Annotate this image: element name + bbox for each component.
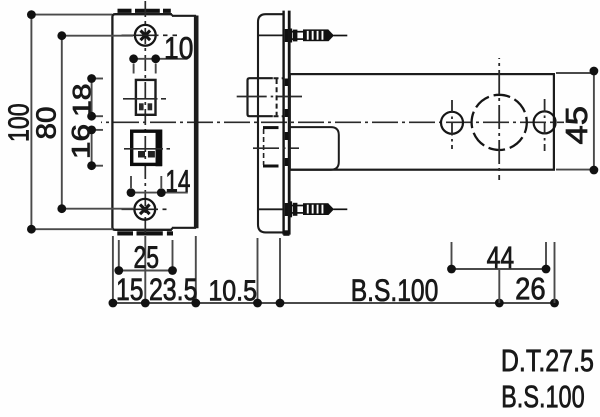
svg-text:16: 16 [68, 124, 96, 159]
front view top tabs [118, 9, 171, 13]
left small circle [441, 112, 463, 134]
front view faceplate outline [112, 14, 171, 230]
dimension 25 [119, 240, 173, 271]
dimension 14 [131, 176, 188, 193]
lock case side view [290, 74, 554, 170]
inner rounded housing [290, 127, 339, 170]
big circle vertical centerline [498, 58, 500, 180]
svg-text:18: 18 [69, 83, 97, 117]
top screw hole [135, 25, 156, 46]
top screw [290, 29, 348, 43]
front view lock case edge [172, 16, 197, 229]
bottom screw hole centerline [122, 208, 167, 210]
dimension 10 [134, 59, 188, 74]
bolt tail marks in slot [139, 103, 144, 110]
square hole (14x16) [132, 131, 161, 164]
svg-text:10.5: 10.5 [208, 275, 257, 307]
screw hole lines in box [259, 35, 283, 209]
svg-text:B.S.100: B.S.100 [501, 379, 585, 414]
latch slot (10x18) [136, 80, 156, 115]
svg-text:10: 10 [164, 31, 193, 66]
svg-text:44: 44 [487, 240, 515, 275]
bottom screw [290, 201, 348, 217]
dimension 44 [452, 242, 555, 303]
bolt hidden edges (dashed) [274, 78, 284, 116]
svg-text:D.T.27.5: D.T.27.5 [501, 343, 594, 378]
main horizontal centerline [101, 121, 564, 123]
spindle marks in square hole [138, 151, 145, 158]
svg-text:26: 26 [515, 271, 546, 306]
side view faceplate edge-on [284, 11, 290, 236]
dimension 18 [92, 79, 103, 117]
svg-text:15: 15 [116, 272, 144, 307]
latch bolt protruding [248, 78, 273, 116]
right small circle [534, 111, 556, 133]
svg-text:80: 80 [31, 107, 62, 140]
dimension 80 [62, 36, 133, 209]
square hole centerline [124, 148, 170, 150]
square hole through box (side) [263, 128, 279, 166]
big dashed circle (hub hole) [472, 95, 527, 150]
dimension 100 [31, 15, 113, 230]
dimension 16 [92, 130, 103, 166]
side view dust box [258, 14, 284, 232]
bottom screw hole [134, 199, 155, 220]
svg-text:23.5: 23.5 [149, 272, 198, 307]
svg-text:25: 25 [133, 240, 159, 275]
svg-text:B.S.100: B.S.100 [351, 273, 439, 308]
dimension 45 [556, 71, 596, 170]
slot centerline [123, 98, 166, 100]
bolt centerline [237, 96, 302, 98]
front view vertical centerline [144, 1, 146, 236]
svg-text:14: 14 [165, 164, 190, 199]
bottom long dimension line [113, 236, 555, 303]
top screw hole centerline [122, 34, 178, 36]
plate hole marks (edge-on) [285, 29, 288, 216]
svg-text:45: 45 [560, 106, 594, 145]
square hole centerline (side) [253, 147, 299, 149]
